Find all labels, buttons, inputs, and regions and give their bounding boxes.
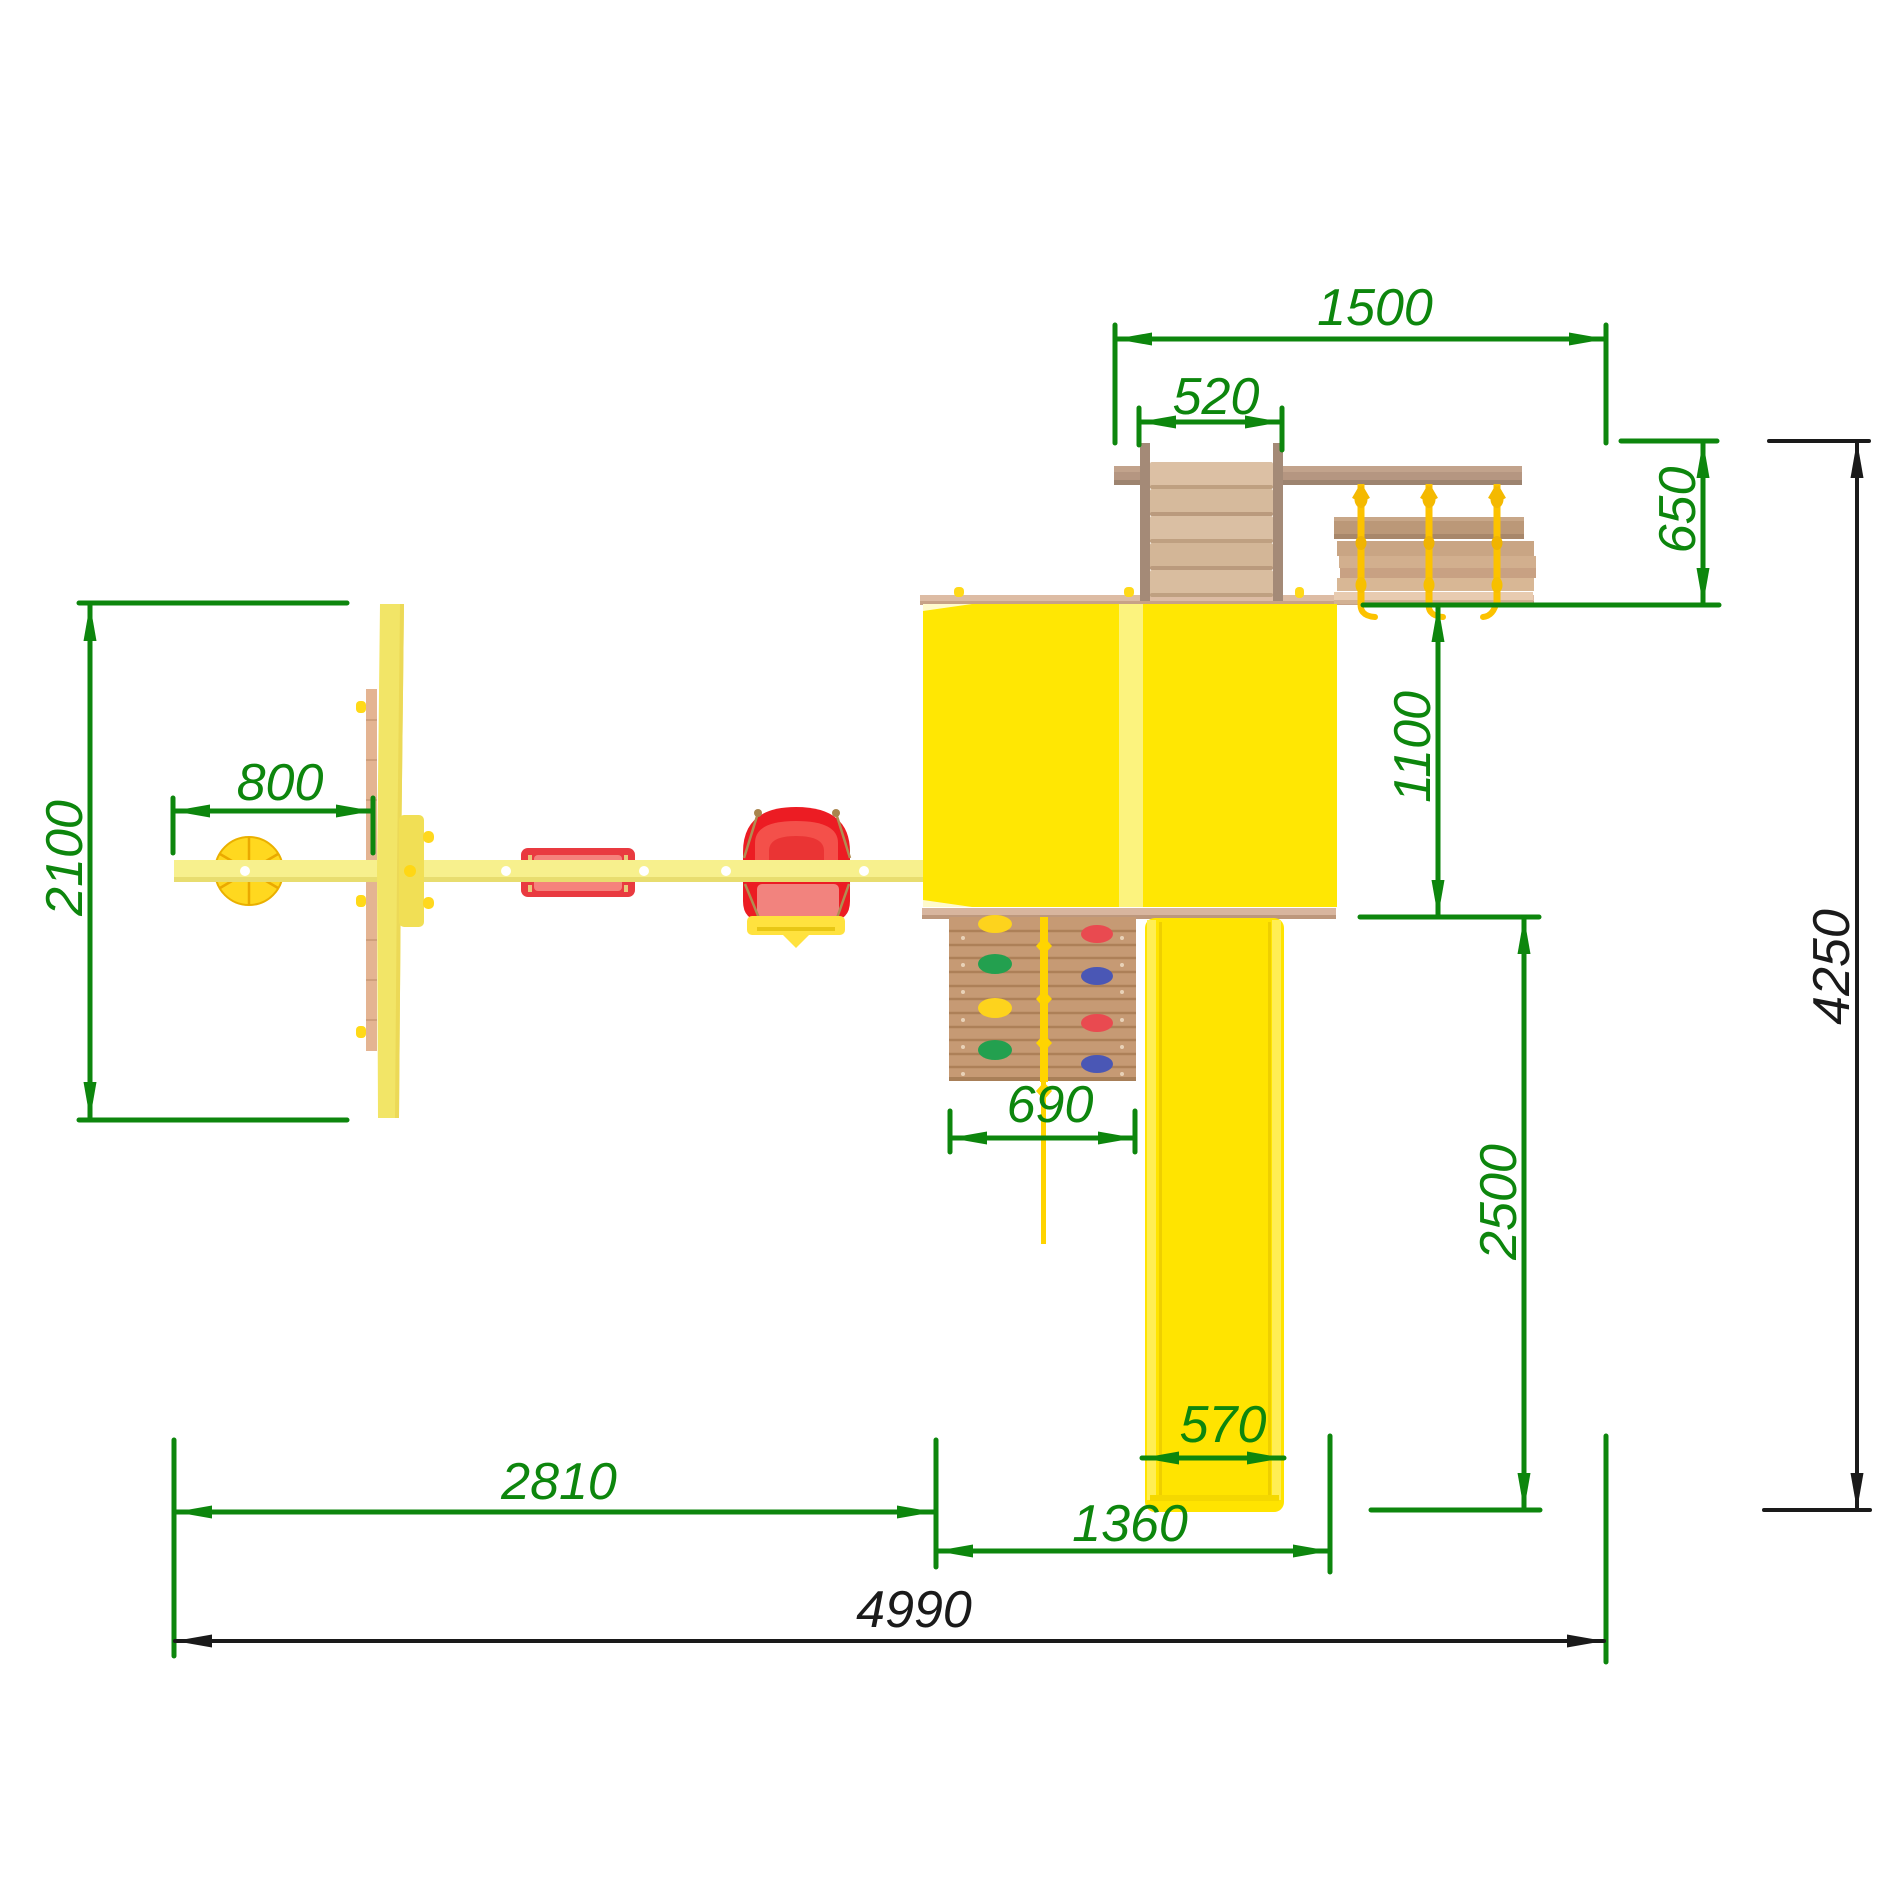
bracket peg 1: [423, 831, 434, 843]
svg-text:690: 690: [1007, 1076, 1094, 1134]
ladder right rail: [1273, 443, 1283, 601]
dimension 1500: [1115, 325, 1606, 443]
climbing hold yellow 1: [978, 915, 1012, 933]
swing flat seat: [521, 848, 635, 897]
monkey-bar top beam: [1114, 466, 1522, 485]
right extension line 4990: [1604, 1436, 1609, 1662]
svg-text:1360: 1360: [1072, 1495, 1188, 1553]
tower roof: [923, 604, 1337, 907]
svg-text:520: 520: [1173, 368, 1260, 426]
rope bridge slat 4: [1340, 568, 1536, 578]
climbing hold red 2: [1081, 1014, 1113, 1032]
rope bridge slat 2: [1337, 541, 1534, 556]
swing beam: [174, 860, 923, 882]
tower top beam peg 2: [1124, 587, 1134, 597]
dimension 570: [1142, 1456, 1284, 1461]
plank peg 1: [356, 701, 366, 713]
tower bottom reference line: [1360, 915, 1539, 920]
dimension 1100: [1436, 605, 1441, 917]
svg-text:2500: 2500: [1470, 1144, 1528, 1261]
tower roof corner highlight top: [923, 604, 972, 611]
svg-text:4990: 4990: [856, 1581, 972, 1639]
rope bridge bottom plank: [1334, 592, 1533, 604]
ladder left rail: [1140, 443, 1150, 601]
svg-text:2810: 2810: [500, 1453, 617, 1511]
tower top beam peg 1: [954, 587, 964, 597]
climbing hold red 1: [1081, 925, 1113, 943]
dimension 690: [950, 1111, 1135, 1152]
ladder rung 1: [1150, 462, 1273, 489]
dimension 1360: [936, 1436, 1330, 1572]
climbing hold blue 2: [1081, 1055, 1113, 1073]
svg-text:2100: 2100: [36, 800, 94, 917]
dimension 520: [1139, 408, 1282, 450]
bridge rope 3: [1483, 484, 1504, 617]
2500 bottom reference line: [1371, 1508, 1540, 1513]
tower roof corner highlight bottom: [923, 900, 972, 907]
bridge rope 1: [1354, 484, 1375, 617]
STRUCTURE: [174, 443, 1536, 1512]
svg-text:570: 570: [1180, 1396, 1267, 1454]
rope bridge slat 3: [1339, 556, 1536, 568]
bridge bottom reference line: [1363, 603, 1719, 608]
dimension 4250: [1764, 441, 1870, 1510]
dimension 4990: [175, 1639, 1604, 1643]
swing A-frame leg: [377, 604, 404, 1118]
climbing hold yellow 2: [978, 998, 1012, 1018]
svg-text:650: 650: [1649, 467, 1707, 554]
rope bridge slat 5: [1337, 578, 1534, 591]
bracket peg 2: [423, 897, 434, 909]
svg-text:1500: 1500: [1317, 279, 1433, 337]
ladder rung 2: [1150, 489, 1273, 516]
climbing hold green 2: [978, 1040, 1012, 1060]
left extension line: [172, 1440, 177, 1656]
ladder rung 5: [1150, 570, 1273, 597]
dimension 2810: [175, 1440, 936, 1567]
baby bucket swing: [743, 807, 850, 921]
tower bottom beam: [922, 908, 1336, 919]
climbing hold green 1: [978, 954, 1012, 974]
swing disc seat: [215, 837, 283, 905]
plank peg 3: [356, 1026, 366, 1038]
beam bolt dots: [240, 866, 869, 876]
ladder rung 3: [1150, 516, 1273, 543]
plank peg 2: [356, 895, 366, 907]
yellow peg ladder foot: [1295, 587, 1304, 598]
dimension 2500: [1522, 917, 1527, 1510]
svg-text:4250: 4250: [1803, 909, 1861, 1025]
tower roof ridge stripe: [1119, 604, 1143, 907]
bridge rope 2: [1422, 484, 1443, 617]
A-frame bracket: [399, 815, 424, 927]
slide: [1145, 918, 1284, 1512]
ladder rung 4: [1150, 543, 1273, 570]
dimension 2100: [79, 603, 347, 1120]
A-frame leg shade: [395, 604, 404, 1118]
climbing rope: [1036, 917, 1052, 1244]
DIMENSIONS: [36, 279, 1870, 1662]
tower bottom peg 1: [955, 919, 965, 934]
svg-text:800: 800: [237, 754, 324, 812]
dimension 800: [173, 798, 373, 853]
baby swing T-bar: [747, 916, 845, 948]
tower top plank: [920, 595, 1534, 605]
svg-text:1100: 1100: [1384, 691, 1442, 803]
beam bolt on bracket: [404, 865, 416, 877]
climbing wall panel: [949, 917, 1136, 1081]
climbing hold blue 1: [1081, 967, 1113, 985]
rope bridge slat 1: [1334, 517, 1524, 539]
dimension 650: [1621, 441, 1717, 605]
tower bottom peg 2: [1121, 919, 1131, 934]
swing A-frame plank: [366, 689, 377, 1051]
